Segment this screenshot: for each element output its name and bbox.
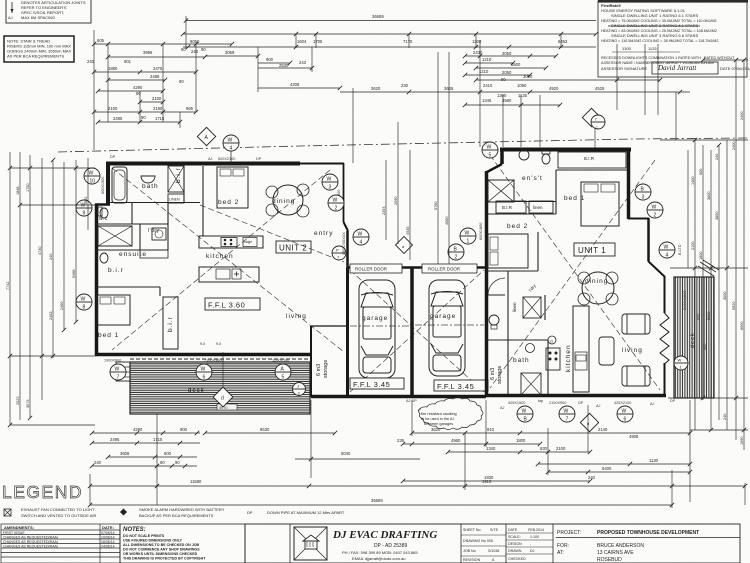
laundry X unit1 xyxy=(523,297,541,318)
bed2 unit1 xyxy=(488,234,528,268)
symbol W below unit1 mid xyxy=(559,406,575,423)
FFL 3.60 box xyxy=(205,298,260,310)
deck unit2 xyxy=(130,362,310,414)
wall storage left xyxy=(310,326,312,397)
bathtub U2 xyxy=(112,167,127,203)
dining table U1 xyxy=(582,272,614,304)
exhaust fan legend symbol xyxy=(4,507,97,518)
symbol W4 unit1 right lower xyxy=(659,242,675,259)
garage diagonals xyxy=(350,270,484,392)
UNIT 2 box xyxy=(276,241,311,253)
wire bottom verticals xyxy=(310,400,312,478)
symbol W1 near unit1 wall xyxy=(460,228,476,245)
symbol W4 roller xyxy=(353,229,369,246)
wall top unit2 xyxy=(106,162,300,166)
dim labels top xyxy=(87,14,605,121)
symbol W2 unit1 right xyxy=(647,202,663,219)
ldry trough xyxy=(152,228,166,240)
UNIT1 interior xyxy=(486,170,628,395)
wire bottom cluster left xyxy=(92,432,200,434)
symbol WB below unit1 xyxy=(517,406,533,423)
articulation joints note box top-left xyxy=(6,0,91,23)
wire left stack verticals xyxy=(9,152,11,425)
wire top long dim line 2 xyxy=(183,33,596,35)
bed 1 unit2 xyxy=(97,295,130,325)
window symbol W8 xyxy=(76,294,92,311)
bed 2 unit2 xyxy=(217,167,248,208)
wall garage middle xyxy=(410,268,414,395)
wire stair cluster lines xyxy=(94,43,232,45)
wall bottom unit1 xyxy=(486,394,666,398)
bed1 unit1 xyxy=(581,182,619,226)
wall left jog xyxy=(95,203,110,206)
water heater unit1 storage xyxy=(489,315,499,325)
linen X closet U2 xyxy=(168,166,184,192)
symbol diamond d below unit1 xyxy=(580,413,598,431)
wire top centre cluster xyxy=(205,55,258,57)
window symbol W6 deck xyxy=(196,364,212,381)
UNIT 1 box xyxy=(574,243,615,256)
symbol diamond d deck xyxy=(213,387,233,407)
symbol P circle left of roller xyxy=(332,246,346,260)
car garage 2 xyxy=(429,280,465,376)
wire top cluster verticals xyxy=(352,88,354,163)
wall garage bottom xyxy=(311,395,486,399)
wall garage left xyxy=(346,268,349,396)
FFL 3.45 boxes xyxy=(350,378,404,389)
wall entry right xyxy=(346,231,349,268)
logo xyxy=(294,527,327,560)
amendments table xyxy=(1,524,120,563)
down pipe legend xyxy=(247,510,345,515)
boundary dash-dot line xyxy=(58,138,748,152)
wall left upper unit2 xyxy=(106,162,110,205)
deck unit1 right xyxy=(674,277,714,398)
wall right unit1 upper xyxy=(627,149,631,219)
symbol A4 top xyxy=(197,127,215,145)
roof diagonals unit2 (dashed) xyxy=(112,155,660,392)
ensuite vanity xyxy=(140,250,168,258)
wire stair cluster verticals xyxy=(93,30,95,150)
dining table U2 xyxy=(273,185,303,215)
deck steps top right xyxy=(700,262,716,272)
roof diagonals unit1 (dashed) xyxy=(490,155,660,390)
ens't shower unit1 xyxy=(488,180,514,202)
notes box xyxy=(120,524,245,563)
kitchen bench U2 xyxy=(199,236,263,248)
ens't wc xyxy=(542,154,550,164)
wall bottom unit2 xyxy=(95,353,311,357)
wall top unit1 xyxy=(500,148,631,152)
roller door boxes xyxy=(350,264,402,273)
living unit1 sofas xyxy=(599,314,650,386)
wire right stack verticals xyxy=(687,150,689,268)
dim labels bottom xyxy=(94,427,659,503)
symbol J3 steps xyxy=(293,383,306,396)
entry door arc unit1 xyxy=(488,278,505,295)
symbol W6 below unit1 xyxy=(617,406,633,423)
window symbol W10 xyxy=(84,168,100,185)
wire right stack horizontals xyxy=(660,139,748,141)
wall entry diagonal xyxy=(344,222,349,231)
basin bath U2 xyxy=(141,176,155,183)
wc toilet U2 xyxy=(100,208,108,218)
dim labels right stack rotated xyxy=(691,112,744,445)
symbol W5 unit1 top xyxy=(482,142,498,159)
bir closet unit2 living xyxy=(163,297,178,349)
window symbol W9 xyxy=(76,200,92,217)
ens't basin xyxy=(519,150,529,160)
smoke alarm legend symbol xyxy=(120,507,225,518)
dim labels left stack rotated xyxy=(6,184,88,408)
symbol 7c top middle xyxy=(582,108,605,129)
kitchen island U2 xyxy=(199,267,259,282)
stair note box xyxy=(4,36,74,62)
car garage 1 xyxy=(359,280,395,378)
symbol B1 roller2 xyxy=(448,244,464,261)
symbol diamond top garage xyxy=(396,237,413,254)
wall right window unit2 entry xyxy=(343,163,345,222)
symbol B3 unit1 right xyxy=(635,184,651,201)
fire resistant cloud note xyxy=(418,398,483,430)
wire bottom cluster mid xyxy=(156,414,158,505)
wire top long dim line 3 xyxy=(183,46,596,48)
ensuite toilet xyxy=(100,253,108,263)
wire left stack horizontals xyxy=(10,167,95,169)
window symbol W7 deck xyxy=(110,364,126,381)
deck steps left xyxy=(116,362,130,381)
wall left lower unit2 xyxy=(95,204,99,356)
wall left upper unit1 xyxy=(500,149,504,164)
kitchen unit1 xyxy=(573,306,589,392)
title block xyxy=(245,524,740,563)
symbol W3 entry xyxy=(322,174,338,191)
wall left lower unit1 xyxy=(485,171,489,397)
FirstRate energy rating box top-right xyxy=(598,0,750,77)
garage centre dash lines xyxy=(350,325,409,327)
symbol deck circle unit1 xyxy=(674,356,688,370)
wire top long dim line 1 xyxy=(186,20,596,22)
bir box unit1 xyxy=(496,201,526,213)
wire bottom long lines xyxy=(90,485,745,487)
wall ensuite diagonal jog xyxy=(487,164,502,172)
window symbol A5 deck xyxy=(275,364,291,381)
symbol W2 entry xyxy=(328,195,344,212)
bir top unit1 xyxy=(558,152,626,168)
shower ensuite U2 xyxy=(98,226,132,246)
wall garage top / roller doors xyxy=(347,266,486,269)
